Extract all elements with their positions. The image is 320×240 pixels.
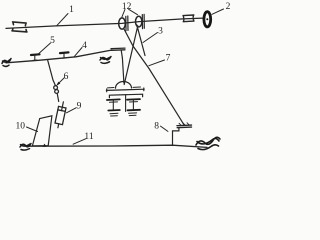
svg-text:9: 9 [77, 102, 82, 112]
bearing 5 (left bearing cap on shaft 4) [31, 53, 40, 56]
joint 6 (double eye link) [54, 86, 58, 90]
leader line for 1 [57, 14, 68, 26]
center post under platform [125, 95, 127, 112]
leader line for 2 [212, 9, 224, 14]
right mount post [132, 100, 134, 110]
leader line for 3 [143, 33, 158, 43]
leader line for 9 [67, 108, 77, 113]
svg-text:12: 12 [122, 2, 132, 12]
belt line pulley 12b to bearing dome [124, 26, 138, 85]
leader lines for 12 [122, 9, 138, 16]
svg-text:8: 8 [154, 122, 159, 132]
pivot triangle under lever 10 [42, 144, 46, 147]
pulley 12b rim bars [142, 14, 144, 28]
hatch dashes beside dome [108, 86, 141, 89]
bearing (right cap on shaft 4) [60, 51, 69, 54]
anchor hatch under plate [100, 57, 111, 64]
anchor hatch at right end of bar 11 [196, 137, 220, 149]
leader line for 11 [73, 139, 86, 145]
pulley 12a (left pulley ellipse) [119, 18, 126, 29]
bearing on shaft 1 right (lower bracket) [183, 19, 194, 22]
lever 10 (quadrilateral plate) [32, 116, 52, 146]
left mount dashes [110, 113, 118, 116]
svg-text:3: 3 [158, 27, 163, 37]
right mount dashes [129, 113, 137, 116]
svg-text:6: 6 [64, 72, 69, 82]
leader line for 7 [149, 60, 165, 66]
platform lower line with end hooks [109, 94, 142, 98]
link 3 (short steep link from pulley 12b) [137, 25, 145, 56]
pulley 12a rim bars [126, 16, 128, 31]
connecting rod from shaft 4 to joint 6 [48, 60, 56, 85]
bearing dome (arc of machine bearing) [115, 81, 131, 88]
right mount base [128, 109, 141, 112]
support plate at right end of shaft 4 [111, 48, 125, 50]
bearing on shaft 1 left (lower bracket) [12, 28, 27, 32]
shaft 4 (middle horizontal shaft) [6, 50, 112, 63]
damper 9 (slanted cylinder) [54, 101, 67, 129]
anchor hatch at left end of bar 11 [20, 144, 31, 151]
base bar 11 (bottom horizontal bar) [29, 145, 207, 147]
leader line for 5 [38, 43, 51, 54]
right mount cap [127, 98, 140, 101]
bracket 8 (stepped support under link 7) [177, 125, 192, 128]
left mount base [108, 109, 120, 112]
svg-text:5: 5 [50, 36, 55, 46]
platform top line [106, 88, 144, 92]
roller 2 (dark ellipse at right shaft end) [204, 12, 211, 27]
svg-text:7: 7 [166, 54, 171, 64]
pulley 12b (right pulley ellipse) [136, 16, 142, 27]
rod from plate post down to bearing dome [122, 58, 124, 83]
leader line for 10 [27, 127, 38, 132]
rod from joint 6 to damper 9 [57, 93, 59, 101]
left mount post [112, 100, 114, 110]
anchor hatch at left end of shaft 4 [2, 59, 11, 67]
left mount cap [107, 98, 120, 101]
leader line for 6 with arrowhead [58, 78, 64, 84]
svg-text:4: 4 [82, 41, 87, 51]
shaft 1 (top main shaft line) [6, 18, 203, 28]
svg-text:11: 11 [84, 132, 93, 142]
svg-text:1: 1 [69, 5, 74, 15]
link 7 (long diagonal from pulley 12a to bracket 8) [124, 29, 184, 125]
bearing on shaft 1 right (upper bracket) [183, 15, 194, 18]
leader line for 8 [161, 126, 168, 131]
post under support plate [121, 50, 122, 58]
bearing on shaft 1 left (upper bracket) [13, 22, 27, 26]
svg-text:10: 10 [15, 122, 25, 132]
leader line for 4 [75, 48, 83, 57]
svg-text:2: 2 [226, 2, 231, 12]
